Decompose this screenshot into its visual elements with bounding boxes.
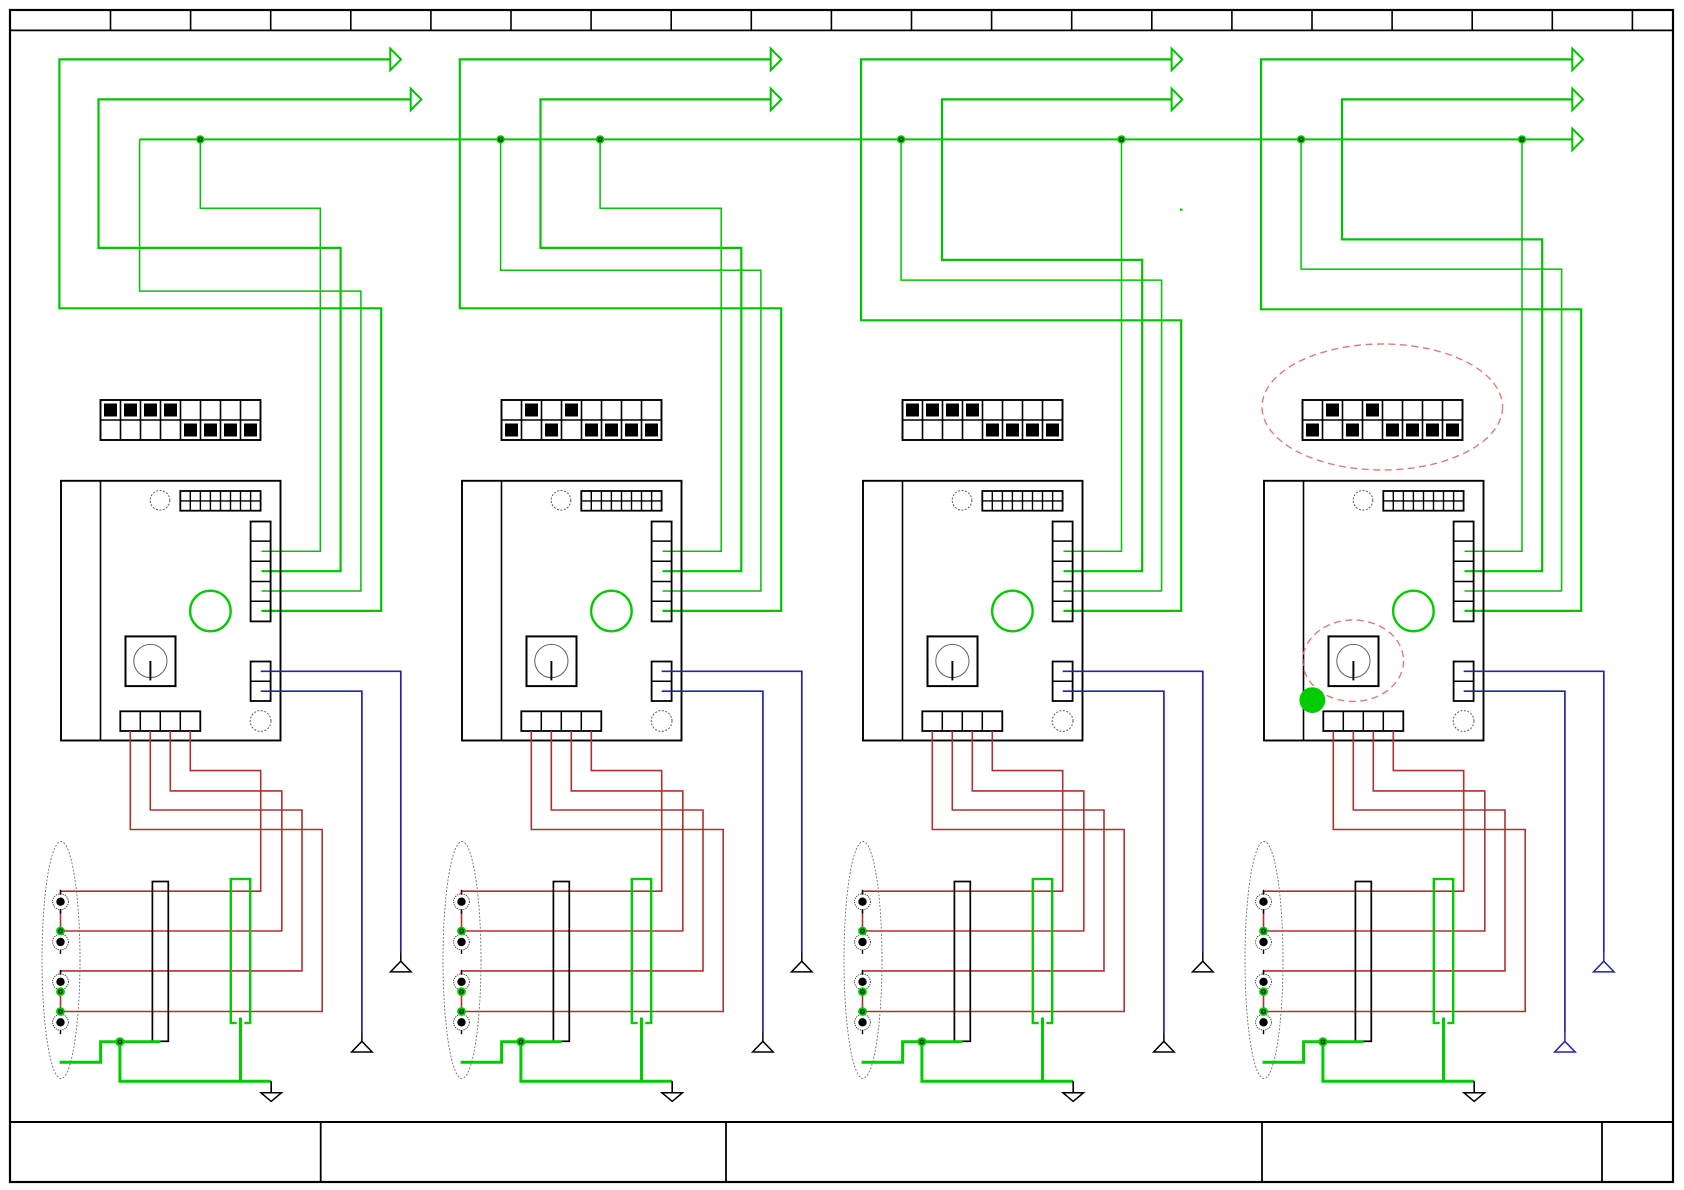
motor M2 cable ellipse bbox=[443, 842, 481, 1079]
port arrow DIR3 bbox=[1172, 89, 1183, 111]
motor M3 pin 3 bbox=[855, 970, 871, 994]
wire ENA tap module 4 to pin 4 bbox=[1301, 139, 1562, 591]
junction dot motor M1 pin2 net bbox=[56, 927, 65, 936]
wire V- module 3 (blue) bbox=[1063, 691, 1164, 1032]
wire ground net module 4 (thick green) segment from motor bbox=[1263, 1042, 1364, 1062]
signal connector J2A 5-pin (board U2 right) bbox=[652, 522, 672, 622]
wire V- module 2 (blue) bbox=[662, 691, 763, 1032]
DIP header grid 2x8 (board U3) bbox=[982, 491, 1062, 511]
wire motor phase C module 2 (red) bbox=[462, 731, 683, 931]
port triangle V- module 1 bbox=[352, 1032, 373, 1052]
driver board U3 outline bbox=[863, 481, 1083, 741]
wire ENA tap module 1 to pin 2 bbox=[200, 139, 320, 551]
driver board U4 left terminal strip divider bbox=[1303, 481, 1305, 741]
potentiometer RV4 dial bbox=[1337, 644, 1370, 677]
wire red stub to motor pin1 module 3 bbox=[862, 891, 864, 895]
junction dot ground net module 2 bbox=[516, 1037, 525, 1046]
motor M1 pin 3 bbox=[53, 970, 69, 994]
motor M1 pin 1 bbox=[53, 890, 69, 914]
driver board U1 left terminal strip divider bbox=[100, 481, 102, 741]
wire red stub to motor pin1 module 2 bbox=[461, 891, 463, 895]
junction dot on ENA bus x=1522.0 bbox=[1518, 135, 1526, 143]
wire net PUL4 (green, to arrow and driver pin 5) bbox=[1261, 59, 1581, 611]
potentiometer RV3 dial bbox=[936, 644, 969, 677]
junction dot ground net module 4 bbox=[1318, 1037, 1327, 1046]
DIP header grid 2x8 (board U1) bbox=[180, 491, 260, 511]
port triangle V+ module 3 bbox=[1193, 953, 1214, 972]
mounting hole top (board U1) bbox=[150, 491, 170, 511]
port arrow PUL1 bbox=[390, 49, 401, 71]
stray green speck bbox=[1180, 209, 1182, 211]
mounting hole top (board U3) bbox=[952, 491, 972, 511]
wire ground net module 3 (thick green) to ground symbol bbox=[922, 1042, 1073, 1081]
wire ENA tap module 2 to pin 2 bbox=[600, 139, 721, 551]
driver board U2 outline bbox=[462, 481, 682, 741]
cable shield connector J1D (black) bbox=[152, 882, 168, 1042]
wire red link pin1-pin2 module 4 bbox=[1263, 909, 1265, 935]
port arrow DIR4 bbox=[1572, 89, 1583, 111]
wire red link pin1-pin2 module 3 bbox=[862, 909, 864, 935]
wire red stub to motor pin3 module 2 bbox=[461, 971, 463, 975]
wire motor phase B module 3 (red) bbox=[863, 731, 1105, 971]
wire motor phase B module 1 (red) bbox=[61, 731, 303, 971]
wire ENA tap module 2 to pin 4 bbox=[501, 139, 761, 591]
junction dot motor M4 below pin3 bbox=[1259, 987, 1268, 996]
wire red link pin3-pin4 module 2 bbox=[461, 990, 463, 1014]
wire ENA bus (green horizontal net) bbox=[140, 138, 1573, 140]
wire motor phase A module 3 (red) bbox=[863, 731, 1125, 1012]
junction dot motor M2 pin2 net bbox=[457, 927, 466, 936]
cable shield connector J4D (black) bbox=[1355, 882, 1371, 1042]
potentiometer RV2 wiper mark bbox=[550, 661, 552, 680]
wire red stub to motor pin3 module 3 bbox=[862, 971, 864, 975]
wire net PUL1 (green, to arrow and driver pin 5) bbox=[59, 59, 390, 611]
mounting hole top (board U4) bbox=[1353, 491, 1373, 511]
cable shield connector P1 (green) bbox=[231, 879, 250, 1025]
potentiometer RV4 body bbox=[1329, 636, 1379, 686]
port arrow PUL2 bbox=[771, 49, 782, 71]
ground symbol module 2 bbox=[662, 1081, 683, 1101]
junction dot motor M4 pin2 net bbox=[1259, 927, 1268, 936]
power connector J3B 2-pin (board U3 right) bbox=[1053, 662, 1073, 702]
motor M3 pin 1 bbox=[855, 890, 871, 914]
potentiometer RV1 dial bbox=[134, 644, 167, 677]
ground symbol module 3 bbox=[1063, 1081, 1084, 1101]
wire net PUL2 (green, to arrow and driver pin 5) bbox=[460, 59, 781, 611]
port arrow DIR2 bbox=[771, 89, 782, 111]
mounting hole bottom (board U3) bbox=[1052, 711, 1073, 732]
highlight ellipse around potentiometer RV4 (red dashed) bbox=[1303, 620, 1404, 701]
wire V- module 1 (blue) bbox=[261, 691, 362, 1032]
junction dot on ENA bus x=200.3 bbox=[196, 135, 204, 143]
wire V+ module 1 (blue) bbox=[261, 671, 401, 952]
LED indicator D2 (green circle on board U2) bbox=[591, 591, 632, 632]
cable shield connector P2 (green) bbox=[632, 879, 651, 1025]
mounting hole bottom (board U2) bbox=[651, 711, 672, 732]
potentiometer RV1 wiper mark bbox=[149, 661, 151, 680]
port arrow PUL3 bbox=[1172, 49, 1183, 71]
wire red link pin1-pin2 module 1 bbox=[60, 909, 62, 935]
motor M3 cable ellipse bbox=[844, 842, 882, 1079]
wire ENA tap module 3 to pin 4 bbox=[901, 139, 1162, 591]
driver board U2 left terminal strip divider bbox=[501, 481, 503, 741]
wire ground net module 3 (thick green) segment from motor bbox=[862, 1042, 963, 1062]
wire motor phase D module 2 (red) bbox=[462, 731, 662, 891]
wire ENA tap module 4 to pin 2 bbox=[1465, 139, 1523, 551]
motor M4 pin 3 bbox=[1256, 970, 1272, 994]
motor M1 pin 2 bbox=[53, 930, 69, 954]
DIP switch SW2 block bbox=[502, 400, 662, 440]
motor M4 pin 1 bbox=[1256, 890, 1272, 914]
motor M2 pin 1 bbox=[454, 890, 470, 914]
junction dot motor M3 pin4 net bbox=[858, 1007, 867, 1016]
potentiometer RV4 wiper mark bbox=[1352, 661, 1354, 680]
signal connector J4A 5-pin (board U4 right) bbox=[1454, 522, 1474, 622]
wire ground net module 4 (thick green) to ground symbol bbox=[1323, 1042, 1474, 1081]
wire ground net module 3 from green connector P3 bbox=[1041, 1018, 1044, 1082]
LED indicator D1 (green circle on board U1) bbox=[190, 591, 231, 632]
wire motor phase B module 4 (red) bbox=[1264, 731, 1506, 971]
port triangle V+ module 1 bbox=[391, 953, 412, 972]
junction dot on ENA bus x=901.1 bbox=[897, 135, 905, 143]
wire red stub to motor pin3 module 4 bbox=[1263, 971, 1265, 975]
wire net DIR4 (green, to arrow and driver pin 3) bbox=[1342, 99, 1572, 571]
junction dot on ENA bus x=500.6 bbox=[496, 135, 504, 143]
highlight ellipse around DIP switch SW4 (red dashed) bbox=[1262, 344, 1503, 470]
power connector J4B 2-pin (board U4 right) bbox=[1454, 662, 1474, 702]
motor connector J2C 4-pin (board U2 bottom) bbox=[521, 711, 601, 731]
top ruler strip bbox=[10, 10, 1673, 30]
wire motor phase C module 4 (red) bbox=[1264, 731, 1485, 931]
wire red stub to motor pin1 module 1 bbox=[60, 891, 62, 895]
port triangle V- module 2 bbox=[753, 1032, 774, 1052]
wire ground net module 1 from green connector P1 bbox=[239, 1018, 242, 1082]
motor M2 pin 4 bbox=[454, 1010, 470, 1034]
wire motor phase A module 2 (red) bbox=[462, 731, 724, 1012]
wire motor phase C module 3 (red) bbox=[863, 731, 1084, 931]
wire net DIR2 (green, to arrow and driver pin 3) bbox=[541, 99, 771, 571]
wire V+ module 2 (blue) bbox=[662, 671, 802, 952]
signal connector J1A 5-pin (board U1 right) bbox=[251, 522, 271, 622]
wire red link pin3-pin4 module 1 bbox=[60, 990, 62, 1014]
motor M3 pin 2 bbox=[855, 930, 871, 954]
wire motor phase C module 1 (red) bbox=[61, 731, 282, 931]
port arrow PUL4 bbox=[1572, 49, 1583, 71]
signal connector J3A 5-pin (board U3 right) bbox=[1053, 522, 1073, 622]
wire net DIR3 (green, to arrow and driver pin 3) bbox=[942, 99, 1172, 571]
wire red stub to motor pin3 module 1 bbox=[60, 971, 62, 975]
port triangle V+ module 2 bbox=[792, 953, 813, 972]
power connector J1B 2-pin (board U1 right) bbox=[251, 662, 271, 702]
bottom title block bbox=[10, 1122, 1673, 1182]
cable shield connector P3 (green) bbox=[1033, 879, 1052, 1025]
motor M2 pin 2 bbox=[454, 930, 470, 954]
motor M4 cable ellipse bbox=[1245, 842, 1283, 1079]
wire V+ module 3 (blue) bbox=[1063, 671, 1203, 952]
port triangle V+ module 4 bbox=[1594, 953, 1615, 972]
wire ground net module 1 (thick green) segment from motor bbox=[60, 1042, 161, 1062]
junction dot on ENA bus x=1301.1 bbox=[1297, 135, 1305, 143]
port arrow DIR1 bbox=[411, 89, 422, 111]
driver board U4 outline bbox=[1264, 481, 1484, 741]
motor M4 pin 4 bbox=[1256, 1010, 1272, 1034]
DIP header grid 2x8 (board U2) bbox=[581, 491, 661, 511]
wire V- module 4 (blue) bbox=[1464, 691, 1565, 1032]
wire motor phase B module 2 (red) bbox=[462, 731, 704, 971]
wire red link pin3-pin4 module 3 bbox=[862, 990, 864, 1014]
ground symbol module 4 bbox=[1464, 1081, 1485, 1101]
ground symbol module 1 bbox=[261, 1081, 282, 1101]
junction dot motor M2 pin4 net bbox=[457, 1007, 466, 1016]
wire motor phase D module 4 (red) bbox=[1264, 731, 1464, 891]
wire ground net module 2 (thick green) to ground symbol bbox=[521, 1042, 672, 1081]
wire red link pin3-pin4 module 4 bbox=[1263, 990, 1265, 1014]
wire V+ module 4 (blue) bbox=[1464, 671, 1604, 952]
junction dot on ENA bus x=1121.5 bbox=[1117, 135, 1125, 143]
port triangle V- module 4 bbox=[1555, 1032, 1576, 1052]
potentiometer RV1 body bbox=[126, 636, 176, 686]
motor M4 pin 2 bbox=[1256, 930, 1272, 954]
power connector J2B 2-pin (board U2 right) bbox=[652, 662, 672, 702]
cable shield connector P4 (green) bbox=[1434, 879, 1453, 1025]
mounting hole bottom (board U4) bbox=[1453, 711, 1474, 732]
potentiometer RV2 body bbox=[527, 636, 577, 686]
junction dot motor M1 pin4 net bbox=[56, 1007, 65, 1016]
LED indicator D4 (green circle on board U4) bbox=[1393, 591, 1434, 632]
wire net DIR1 (green, to arrow and driver pin 3) bbox=[99, 99, 411, 571]
junction dot motor M3 pin2 net bbox=[858, 927, 867, 936]
junction dot motor M3 below pin3 bbox=[858, 987, 867, 996]
motor connector J4C 4-pin (board U4 bottom) bbox=[1323, 711, 1403, 731]
port triangle V- module 3 bbox=[1154, 1032, 1175, 1052]
wire motor phase A module 4 (red) bbox=[1264, 731, 1526, 1012]
junction dot ground net module 3 bbox=[917, 1037, 926, 1046]
driver board U3 left terminal strip divider bbox=[902, 481, 904, 741]
wire ground net module 1 (thick green) to ground symbol bbox=[120, 1042, 271, 1081]
junction dot ground net module 1 bbox=[115, 1037, 124, 1046]
motor M1 cable ellipse bbox=[42, 842, 80, 1079]
wire red link pin1-pin2 module 2 bbox=[461, 909, 463, 935]
wire ground net module 2 from green connector P2 bbox=[640, 1018, 643, 1082]
wire ENA tap module 3 to pin 2 bbox=[1064, 139, 1122, 551]
motor connector J1C 4-pin (board U1 bottom) bbox=[120, 711, 200, 731]
wire motor phase D module 1 (red) bbox=[61, 731, 261, 891]
motor M3 pin 4 bbox=[855, 1010, 871, 1034]
junction dot motor M4 pin4 net bbox=[1259, 1007, 1268, 1016]
wire motor phase D module 3 (red) bbox=[863, 731, 1063, 891]
cable shield connector J2D (black) bbox=[553, 882, 569, 1042]
port arrow ENA bus bbox=[1572, 129, 1583, 151]
LED indicator D3 (green circle on board U3) bbox=[992, 591, 1033, 632]
DIP switch SW3 block bbox=[903, 400, 1063, 440]
potentiometer RV2 dial bbox=[535, 644, 568, 677]
motor M1 pin 4 bbox=[53, 1010, 69, 1034]
wire ground net module 4 from green connector P4 bbox=[1442, 1018, 1445, 1082]
motor M2 pin 3 bbox=[454, 970, 470, 994]
driver board U1 outline bbox=[61, 481, 281, 741]
cable shield connector J3D (black) bbox=[954, 882, 970, 1042]
wire ENA tap module 1 to pin 4 (bus left end) bbox=[140, 139, 361, 591]
mounting hole top (board U2) bbox=[551, 491, 571, 511]
potentiometer RV3 wiper mark bbox=[951, 661, 953, 680]
wire motor phase A module 1 (red) bbox=[61, 731, 323, 1012]
green marker dot on board U4 bbox=[1299, 687, 1325, 713]
mounting hole bottom (board U1) bbox=[250, 711, 271, 732]
DIP switch SW1 block bbox=[101, 400, 261, 440]
wire red stub to motor pin1 module 4 bbox=[1263, 891, 1265, 895]
junction dot motor M2 below pin3 bbox=[457, 987, 466, 996]
wire ground net module 2 (thick green) segment from motor bbox=[461, 1042, 562, 1062]
DIP switch SW4 block bbox=[1303, 400, 1463, 440]
junction dot motor M1 below pin3 bbox=[56, 987, 65, 996]
DIP header grid 2x8 (board U4) bbox=[1383, 491, 1463, 511]
motor connector J3C 4-pin (board U3 bottom) bbox=[922, 711, 1002, 731]
wire net PUL3 (green, to arrow and driver pin 5) bbox=[861, 59, 1181, 611]
potentiometer RV3 body bbox=[928, 636, 978, 686]
junction dot on ENA bus x=600.1 bbox=[596, 135, 604, 143]
